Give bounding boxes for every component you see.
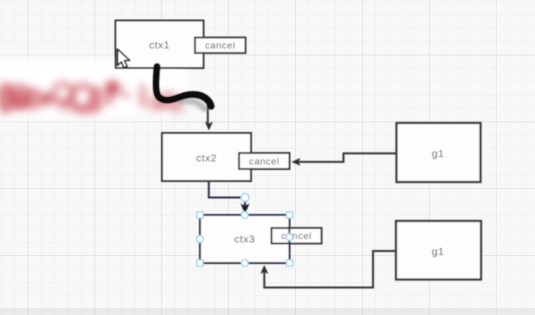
svg-text:g1: g1 [432, 246, 444, 258]
svg-text:cancel: cancel [249, 156, 279, 167]
svg-text:cancel: cancel [205, 41, 235, 52]
svg-text:ctx1: ctx1 [149, 40, 170, 52]
svg-text:ctx3: ctx3 [234, 234, 255, 246]
svg-text:ctx2: ctx2 [196, 153, 217, 165]
svg-text:g1: g1 [432, 148, 444, 160]
